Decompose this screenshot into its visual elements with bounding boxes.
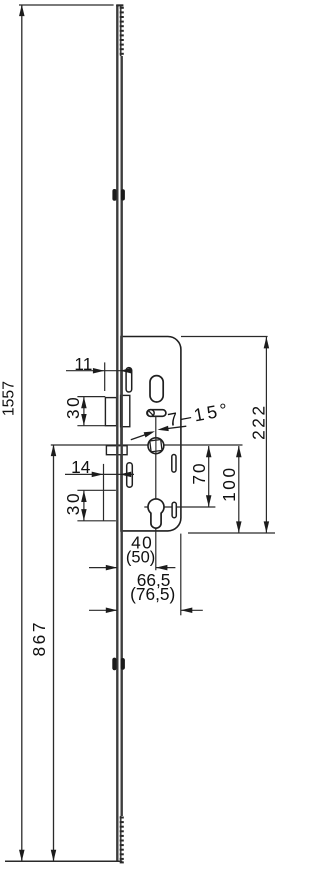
angle indicator ray right [164,426,186,429]
svg-text:222: 222 [249,403,269,440]
dimension 222 line [265,337,267,533]
arrow up 70 [206,446,212,458]
bottom reference line [5,860,122,862]
dimension 11 line [66,370,131,372]
arrow up 1557 [19,5,25,17]
arrow up 100 [236,446,242,458]
auxiliary latch rectangle at follower axis [106,446,127,455]
case bottom extension line [188,532,275,534]
dimension 11 tick [104,362,106,391]
arrow down 30 lower [81,509,87,520]
arrow down 70 [206,495,212,507]
latch bolt head (protruding) [105,398,116,426]
dimension 30 upper line [83,397,85,425]
faceplate slot upper [126,368,132,392]
follower axis cross [155,437,157,455]
roller cam upper [112,189,125,201]
dimension 1557 vertical line [21,6,23,861]
arrow left 66,5 [181,608,193,614]
latch bolt body inside case [121,395,130,426]
case top extension line [181,336,268,338]
top extension line [19,4,114,6]
svg-text:867: 867 [29,620,49,657]
arrow up 30 lower [81,491,87,503]
dimension 867 vertical line [53,445,55,860]
rail top cap [116,4,123,6]
svg-text:100: 100 [219,465,239,502]
right slot lower [172,502,176,517]
svg-text:70: 70 [189,461,209,484]
extension line for 76,5 [180,534,182,616]
handle follower circle [148,438,164,454]
svg-text:(50): (50) [126,549,155,567]
dimension 40 line left part [89,567,117,569]
arrow left 14 [120,472,132,478]
angle indicator ray left [131,434,148,440]
arrow down 222 [264,521,270,533]
svg-text:14: 14 [71,457,91,477]
dimension 40 line right part [156,567,176,569]
stadium cutout in case [150,376,163,402]
arrow right 40 [106,565,118,571]
serrated teeth bottom [120,817,124,864]
arrow left 40 [156,565,168,571]
dimension 66,5 line right part [181,609,203,611]
drive rod line [120,56,122,816]
angle arrow left (points up-right) [144,431,155,437]
faceplate slot lower [127,463,133,488]
screw slot with screw head [147,410,166,417]
arrow down 100 [236,521,242,533]
arrow right 66,5 [106,608,118,614]
svg-text:1557: 1557 [1,381,18,416]
faceplate front line [116,5,118,862]
serrated teeth top [120,7,124,55]
arrow down 1557 [19,850,25,862]
svg-text:(76,5): (76,5) [130,584,175,604]
follower square spindle hole [150,440,162,452]
arrow up 30 upper [81,397,87,409]
svg-text:30: 30 [63,491,83,515]
arrow down 867 [51,850,57,862]
case vertical center line [155,416,157,570]
arrow up 222 [264,337,270,349]
euro profile cylinder hole [148,499,164,528]
dimension 30 lower extension lines [77,489,116,491]
dimension 66,5 line left part [89,609,117,611]
dimension 70 line [208,446,210,507]
angle arrow right (points down-left) [158,426,169,431]
svg-text:11: 11 [74,354,92,374]
arrow right 14 [92,472,104,478]
cylinder axis extension line [144,506,215,508]
roller cam lower [112,658,125,671]
arrow left 11 [120,368,131,374]
dimension 14 tick [103,464,105,521]
right slot upper [172,455,176,473]
dimension 30 lower line [83,491,85,521]
dimension 100 line [238,446,240,533]
follower axis extension line [51,444,243,446]
arrow up 867 [51,445,57,457]
dimension 14 line [65,473,134,475]
arrow right 11 [93,368,105,374]
arrow down 30 upper [81,414,87,426]
dimension 30 upper extension lines [77,396,105,398]
svg-text:30: 30 [63,395,83,419]
lock case outline [121,337,181,531]
